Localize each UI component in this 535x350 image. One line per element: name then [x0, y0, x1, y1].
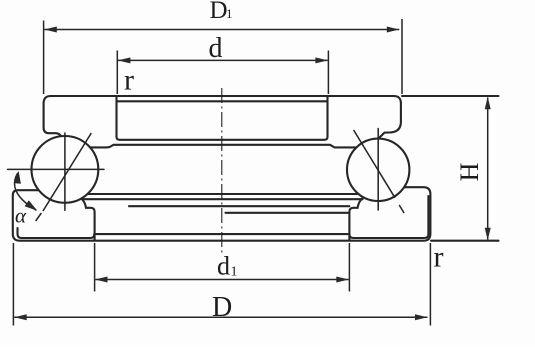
svg-text:1: 1: [231, 265, 238, 280]
svg-text:D: D: [212, 292, 232, 323]
svg-text:d: d: [217, 252, 230, 281]
svg-text:α: α: [15, 204, 27, 228]
svg-text:r: r: [124, 64, 134, 97]
svg-text:1: 1: [226, 6, 233, 21]
svg-text:H: H: [455, 162, 484, 181]
svg-text:d: d: [209, 33, 223, 64]
svg-text:D: D: [210, 0, 228, 24]
svg-text:r: r: [434, 241, 444, 274]
